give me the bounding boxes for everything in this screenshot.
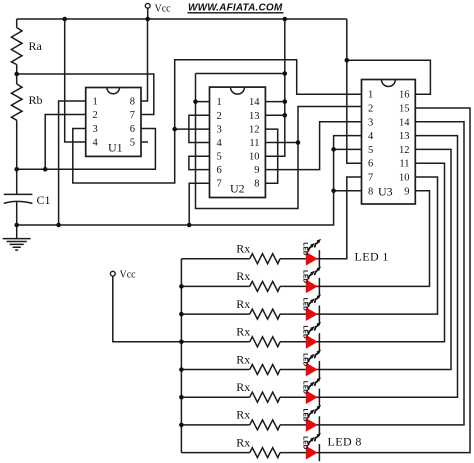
wire: Ra/Rb node to U1 pin 7 <box>17 74 154 115</box>
wire: U2 pin 13 to Vcc line <box>265 114 284 116</box>
LED D1 <box>301 239 321 267</box>
svg-text:7: 7 <box>217 179 222 190</box>
wire: LED bus to resistor Rx row 3 <box>181 313 249 315</box>
wire: LED bus to resistor Rx row 1 <box>181 258 249 260</box>
IC U2 (14-pin) <box>210 87 266 197</box>
svg-text:LED: LED <box>301 326 308 339</box>
title www.afiata.com <box>188 3 284 14</box>
svg-text:11: 11 <box>249 138 259 149</box>
resistor Rb <box>11 84 42 120</box>
IC U1 (555 timer, 8-pin) <box>86 88 141 157</box>
wire: Rb down to C1 <box>16 120 18 194</box>
wire: U3 pin 8 stub <box>334 190 362 192</box>
svg-text:1: 1 <box>217 97 222 108</box>
LED D6 <box>301 377 321 406</box>
wire: Vcc terminal down to top rail <box>147 8 149 19</box>
svg-text:7: 7 <box>130 110 135 121</box>
wire: LED D2 cathode to U3 pin 9 <box>280 191 430 287</box>
svg-text:3: 3 <box>368 117 373 128</box>
svg-text:Rx: Rx <box>236 297 250 311</box>
svg-text:16: 16 <box>399 90 410 101</box>
svg-text:10: 10 <box>399 173 410 184</box>
wire: LED bus to resistor Rx row 5 <box>181 369 249 371</box>
wire: U2 pin 11 to node <box>265 142 298 144</box>
resistor Rx (row 3) <box>236 297 280 319</box>
svg-text:Rx: Rx <box>236 352 250 366</box>
wire: U1 pin 6 to RC node <box>17 129 156 170</box>
wire: U1 pin 2 to RC node <box>45 115 85 170</box>
svg-text:U3: U3 <box>378 185 393 199</box>
wire: Vcc rail end to U3 pin 6 <box>347 19 362 163</box>
wire: LED D6 cathode to U3 pin 13 <box>280 136 458 398</box>
LED D8 <box>301 433 321 462</box>
wire: top Vcc rail <box>17 18 347 20</box>
svg-text:Rx: Rx <box>236 269 250 283</box>
svg-text:13: 13 <box>249 111 260 122</box>
wire: LED D3 cathode to U3 pin 10 <box>280 177 438 314</box>
svg-text:C1: C1 <box>37 193 51 207</box>
wire: Vcc branch to U3 pin 16 <box>347 60 431 94</box>
wire: LED bus to resistor Rx row 8 <box>181 452 249 454</box>
svg-text:Rx: Rx <box>236 435 250 449</box>
resistor Rx (row 7) <box>236 408 280 430</box>
wire: LED bus to resistor Rx row 4 <box>181 341 249 343</box>
wire: LED D5 cathode to U3 pin 12 <box>280 149 451 369</box>
resistor Rx (row 6) <box>236 380 280 402</box>
svg-text:13: 13 <box>399 131 410 142</box>
svg-text:11: 11 <box>399 159 409 170</box>
svg-text:LED 1: LED 1 <box>355 249 389 263</box>
svg-text:9: 9 <box>404 186 409 197</box>
svg-text:LED: LED <box>301 409 308 422</box>
Vcc terminal (top) <box>145 3 171 14</box>
svg-text:3: 3 <box>217 125 222 136</box>
wire: U3 pin 5 stub <box>334 148 362 150</box>
wire: U2 pins 2-4 strap <box>189 115 210 142</box>
wire: U1 pin 3 to U2 pin 3 and U3 pin 1 <box>73 60 362 183</box>
wire: U1 pin 5 stub <box>141 141 148 143</box>
svg-text:5: 5 <box>130 138 135 149</box>
wire: U2 pin 14 to Vcc line <box>265 101 284 103</box>
LED D3 <box>301 294 321 323</box>
svg-text:4: 4 <box>217 138 223 149</box>
svg-text:Ra: Ra <box>29 39 43 53</box>
wire: U2 pins 5-6 strap <box>189 156 210 169</box>
svg-text:4: 4 <box>93 138 99 149</box>
wire: LED bus to resistor Rx row 7 <box>181 424 249 426</box>
wire: LED D7 cathode to U3 pin 14 <box>280 122 464 425</box>
svg-text:WWW.AFIATA.COM: WWW.AFIATA.COM <box>188 3 283 14</box>
svg-text:5: 5 <box>368 145 373 156</box>
wire: Vcc to U1 pin 8 <box>141 19 148 101</box>
wire: LED bus to resistor Rx row 6 <box>181 396 249 398</box>
wire: LED bus to resistor Rx row 2 <box>181 285 249 287</box>
resistor Rx (row 4) <box>236 325 280 347</box>
svg-text:12: 12 <box>399 145 410 156</box>
LED D7 <box>301 405 321 434</box>
svg-text:7: 7 <box>368 173 373 184</box>
svg-text:8: 8 <box>130 97 135 108</box>
svg-text:15: 15 <box>399 104 410 115</box>
svg-text:2: 2 <box>217 111 222 122</box>
wire: U2 pin 1 node <box>196 74 362 209</box>
svg-text:3: 3 <box>93 124 98 135</box>
svg-text:U2: U2 <box>230 182 245 196</box>
svg-text:LED 8: LED 8 <box>328 434 362 448</box>
svg-text:Vcc: Vcc <box>120 270 137 281</box>
resistor Ra <box>11 28 42 65</box>
svg-text:2: 2 <box>93 110 98 121</box>
svg-text:6: 6 <box>217 165 222 176</box>
svg-text:Vcc: Vcc <box>155 4 172 15</box>
wire: left column top <box>16 19 18 28</box>
svg-text:LED: LED <box>301 436 308 449</box>
LED D5 <box>301 350 321 379</box>
svg-text:12: 12 <box>249 125 260 136</box>
svg-text:10: 10 <box>249 152 260 163</box>
svg-text:LED: LED <box>301 353 308 366</box>
capacitor C1 <box>4 193 51 207</box>
wire: LED bus vertical <box>180 259 182 453</box>
wire: U1 pin 1 to ground rail <box>59 101 86 225</box>
IC U3 (16-pin) <box>362 80 416 205</box>
svg-text:8: 8 <box>254 179 259 190</box>
svg-text:4: 4 <box>368 131 374 142</box>
svg-text:Rx: Rx <box>236 408 250 422</box>
svg-text:Rx: Rx <box>236 380 250 394</box>
resistor Rx (row 1) <box>236 242 280 264</box>
LED D2 <box>301 267 321 296</box>
wire: U2 pin 9 to U3 pin 3 <box>265 122 361 170</box>
svg-text:Rx: Rx <box>236 325 250 339</box>
resistor Rx (row 5) <box>236 352 280 374</box>
svg-text:LED: LED <box>301 242 308 255</box>
wire: C1 to ground rail <box>16 202 18 225</box>
svg-text:14: 14 <box>249 97 260 108</box>
Vcc terminal (LED supply) <box>110 270 136 281</box>
wire: LED D4 cathode to U3 pin 11 <box>280 163 445 342</box>
svg-text:1: 1 <box>93 97 98 108</box>
svg-text:Rx: Rx <box>236 242 250 256</box>
wire: U2 pin 7 to ground rail <box>189 183 209 225</box>
LED D4 <box>301 322 321 351</box>
svg-text:9: 9 <box>254 165 259 176</box>
svg-text:LED: LED <box>301 298 308 311</box>
resistor Rx (row 8) <box>236 435 280 457</box>
svg-text:5: 5 <box>217 152 222 163</box>
svg-text:LED: LED <box>301 270 308 283</box>
svg-text:Rb: Rb <box>29 93 43 107</box>
ground symbol <box>3 225 31 250</box>
wire: LED D8 cathode to U3 pin 15 <box>280 108 470 453</box>
svg-text:2: 2 <box>368 104 373 115</box>
wire: Vcc rail drop x285 to U2 pin 10 <box>265 19 284 156</box>
svg-text:14: 14 <box>399 117 410 128</box>
svg-text:8: 8 <box>368 186 373 197</box>
wire: U2 pins 12-8 strap <box>265 129 277 183</box>
svg-text:6: 6 <box>368 159 373 170</box>
wire: U2 pin 3 stub <box>175 128 210 130</box>
svg-text:1: 1 <box>368 90 373 101</box>
wire: Ra to Rb with junction <box>16 65 18 85</box>
svg-text:6: 6 <box>130 124 135 135</box>
svg-text:U1: U1 <box>108 141 123 155</box>
wire: Vcc rail drop to U1 pin 4 <box>65 19 86 142</box>
wire: LED D1 cathode to U3 pin 7 <box>280 177 362 259</box>
resistor Rx (row 2) <box>236 269 280 291</box>
wire: Vcc2 to LED bus <box>113 276 182 342</box>
svg-text:LED: LED <box>301 381 308 394</box>
wire: ground rail to U3 pins 4,5,8 <box>17 136 362 225</box>
